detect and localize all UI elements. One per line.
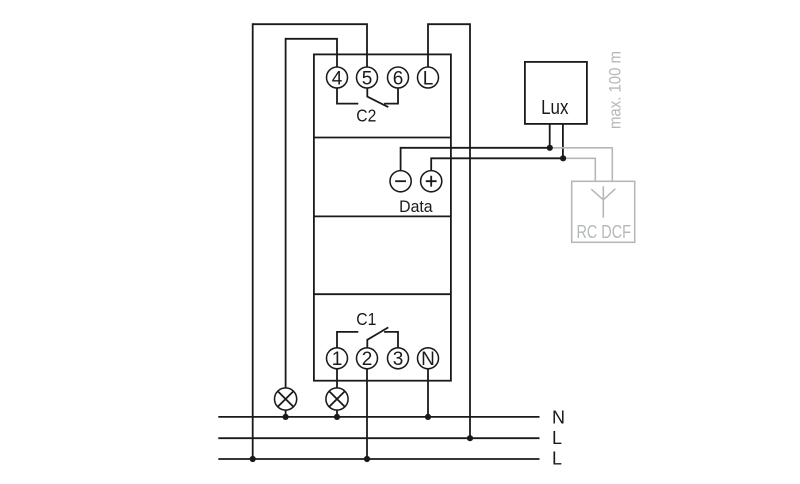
terminal 5 — [357, 67, 378, 89]
switch C2 blade from terminal 5 — [367, 88, 388, 107]
wire: terminal 5 up and over to top-left corner — [253, 24, 367, 67]
svg-text:Data: Data — [399, 197, 433, 216]
switch C2 contact from terminal 6 — [384, 88, 398, 104]
wire: terminal 1 down to lamp E2 — [336, 369, 338, 388]
device box outline — [314, 54, 451, 380]
junction: left vertical on L2 line — [250, 456, 256, 462]
svg-text:N: N — [421, 349, 435, 370]
device box divider 3 — [314, 293, 451, 295]
svg-text:max. 100 m: max. 100 m — [605, 51, 624, 129]
wire: Data plus to Lux junction — [431, 158, 563, 171]
junction: lamp E2 on N line — [334, 414, 340, 420]
gray wire: upper junction to RC DCF box — [550, 148, 613, 182]
antenna symbol — [591, 186, 615, 217]
device box divider 2 — [314, 215, 451, 217]
svg-text:5: 5 — [362, 68, 373, 89]
switch C1 blade from terminal 2 — [367, 327, 388, 348]
svg-text:4: 4 — [332, 68, 343, 89]
switch C1 contact from terminal 3 — [384, 332, 398, 348]
terminal 2 — [357, 348, 378, 370]
terminal 1 — [327, 348, 348, 370]
gray wire: lower junction to RC DCF box — [563, 158, 595, 181]
svg-text:3: 3 — [393, 349, 404, 370]
wire: Data minus to Lux junction — [401, 148, 550, 171]
terminal N — [418, 348, 439, 370]
junction: Data plus / Lux right — [560, 155, 566, 161]
switch C1 contact from terminal 1 — [337, 332, 358, 348]
mains line N — [218, 416, 539, 418]
mains line L2 — [218, 458, 539, 460]
wire: terminal 4 up and over to lamp drop — [286, 39, 337, 68]
svg-text:C1: C1 — [356, 309, 376, 329]
terminal 3 — [388, 348, 409, 370]
svg-text:L: L — [423, 68, 434, 89]
RC DCF receiver box — [572, 181, 635, 242]
device box divider 1 — [314, 137, 451, 139]
svg-text:Lux: Lux — [541, 97, 568, 119]
lamp E2 — [326, 388, 348, 410]
terminal 6 — [388, 67, 409, 89]
svg-text:L: L — [552, 428, 562, 448]
wire: terminal L up over right side down to L line — [428, 24, 470, 438]
mains line L1 — [218, 437, 539, 439]
svg-text:1: 1 — [332, 349, 343, 370]
svg-text:2: 2 — [362, 349, 373, 370]
junction: terminal 2 on L2 line — [364, 456, 370, 462]
junction: L loop on L1 line — [467, 435, 473, 441]
junction: Data minus / Lux left — [547, 145, 553, 151]
svg-text:C2: C2 — [356, 106, 376, 126]
junction: lamp E1 on N line — [283, 414, 289, 420]
switch C2 contact from terminal 4 — [337, 88, 358, 104]
terminal L — [418, 67, 439, 89]
wire: lamp E1 to N line — [285, 410, 287, 417]
wire: left vertical drop to bottom L line — [252, 23, 254, 459]
wire: Lux right leg — [562, 124, 564, 158]
wire: Lux left leg — [549, 124, 551, 148]
terminal 4 — [327, 67, 348, 89]
svg-text:N: N — [552, 407, 565, 427]
lamp E1 — [275, 388, 297, 410]
terminal Data minus — [390, 171, 411, 192]
junction: terminal N on N line — [425, 414, 431, 420]
svg-text:6: 6 — [393, 68, 404, 89]
wire: drop from terminal-4 loop down to lamp E1 — [285, 38, 287, 388]
wire: terminal 2 down to bottom L line — [366, 369, 368, 459]
svg-text:RC DCF: RC DCF — [576, 222, 631, 242]
svg-text:L: L — [552, 449, 562, 469]
wire: terminal N down to N line — [427, 369, 429, 417]
terminal Data plus — [421, 171, 442, 192]
Lux sensor box — [525, 62, 587, 124]
wire: lamp E2 to N line — [336, 410, 338, 417]
